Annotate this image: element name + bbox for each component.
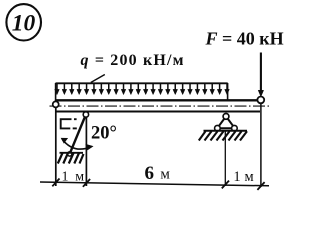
svg-text:q = 200 кН/м: q = 200 кН/м	[81, 52, 184, 69]
svg-text:1: 1	[62, 169, 69, 184]
svg-text:м: м	[245, 169, 254, 185]
svg-text:1: 1	[233, 169, 240, 185]
svg-text:20°: 20°	[91, 124, 117, 144]
svg-text:м: м	[75, 169, 84, 184]
svg-text:м: м	[160, 167, 170, 183]
svg-text:6: 6	[145, 163, 155, 184]
svg-text:F = 40 кН: F = 40 кН	[205, 28, 284, 48]
svg-text:10: 10	[12, 11, 36, 37]
